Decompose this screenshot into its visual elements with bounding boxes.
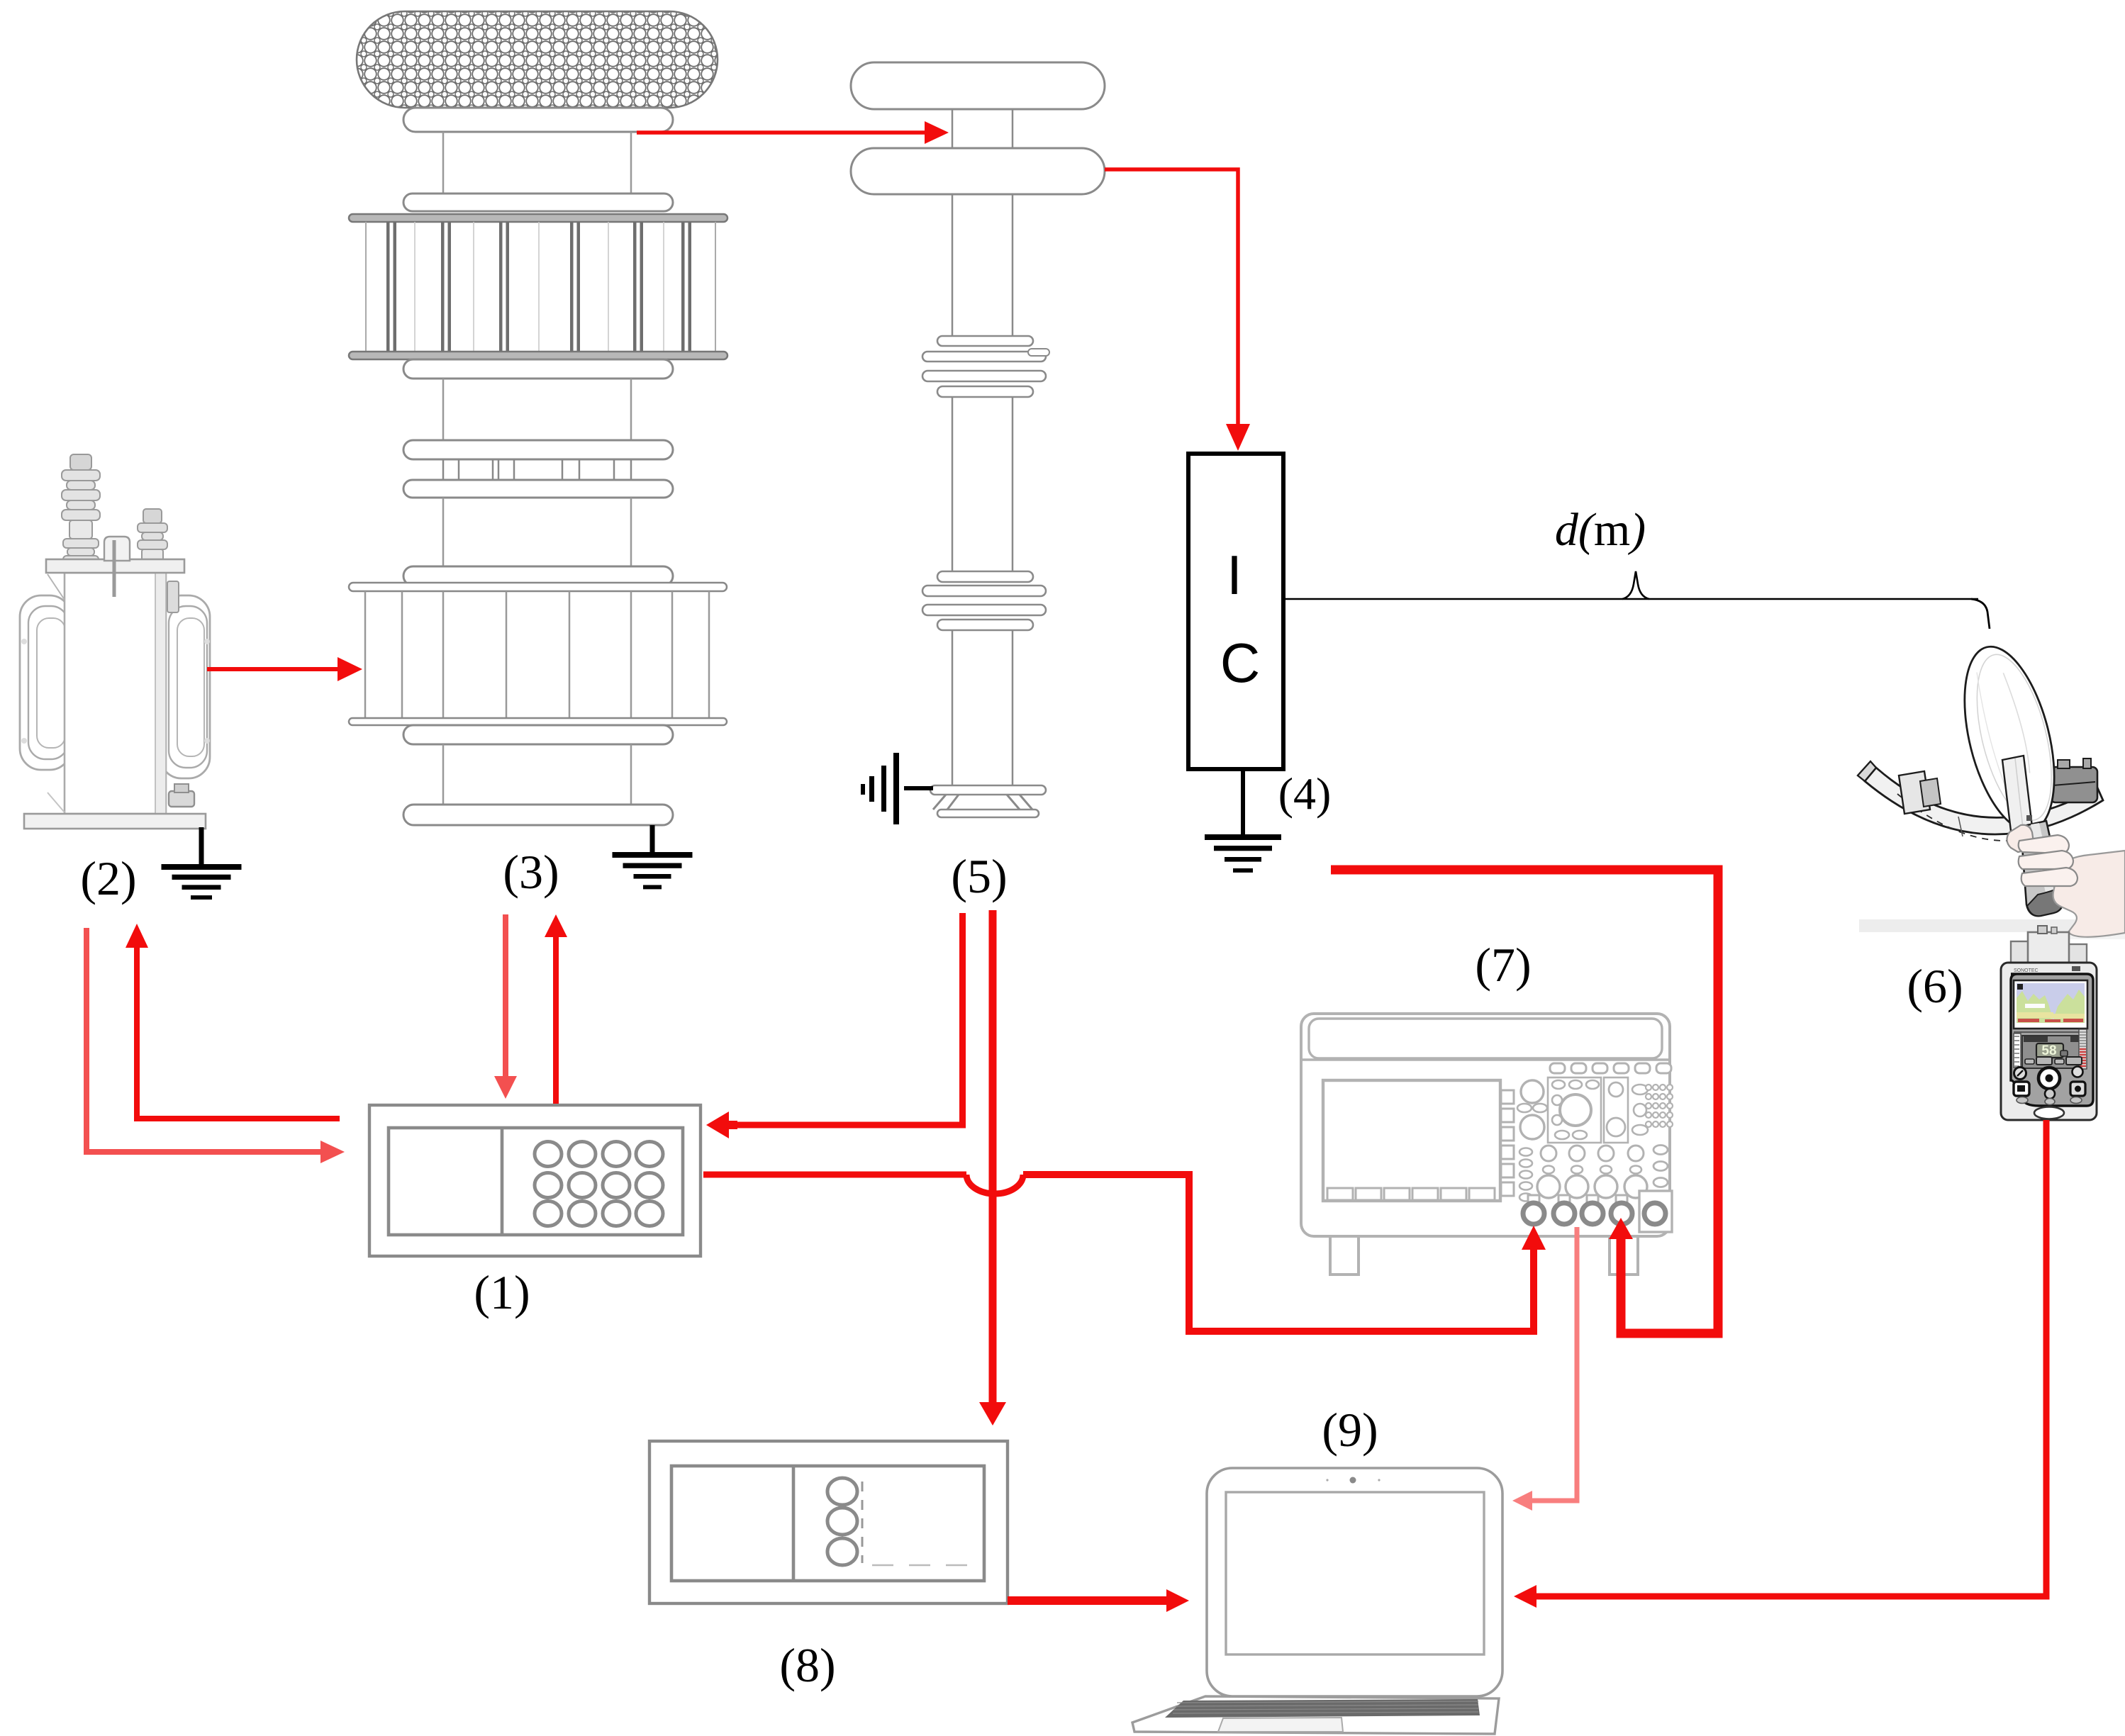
column segment: [442, 744, 445, 805]
wire (1) up into (3): [553, 937, 559, 1104]
toroid ring 6: [403, 566, 673, 586]
base plate: [24, 814, 206, 829]
toroid ring 4: [403, 440, 673, 459]
column: [952, 194, 954, 336]
right mid column: [1604, 1077, 1628, 1143]
boom dashed inner edge: [1897, 794, 2036, 841]
svg-text:58: 58: [2041, 1043, 2056, 1058]
floor shadow: [1859, 919, 2125, 932]
column segment: [442, 379, 445, 440]
fingers: [2019, 835, 2069, 853]
svg-text:C: C: [1220, 632, 1260, 694]
laptop (9): [1132, 1468, 1502, 1734]
oscilloscope (7): [1301, 1014, 1673, 1275]
corona mesh electrode: [357, 11, 718, 108]
handheld detector (6): [2001, 926, 2097, 1120]
wire loop from (4) area to scope CH4: [1331, 870, 1718, 1333]
small readouts: [2025, 1059, 2034, 1064]
ground of tower (3): [613, 825, 693, 889]
ground of divider (5), left-pointing: [861, 753, 933, 824]
toroid ring 5: [403, 480, 673, 498]
wire (6) down-left into laptop: [1536, 1120, 2046, 1596]
right lower ovals: [1653, 1146, 1668, 1155]
left knobs: [1521, 1080, 1544, 1103]
buttons: [2038, 1068, 2060, 1089]
central cluster: [1548, 1077, 1601, 1143]
lower capacitor stage: [349, 583, 727, 591]
tank lid: [46, 559, 184, 573]
HV bushing: [70, 454, 91, 470]
screen: [1323, 1080, 1500, 1201]
wire (5) down-left into (1): [729, 913, 963, 1125]
drain valve: [169, 791, 194, 807]
top button row: [1550, 1063, 1565, 1073]
scope body: [1301, 1014, 1670, 1236]
column: [952, 109, 954, 148]
curved boom: [1865, 768, 2103, 834]
laptop base: [1132, 1696, 1499, 1734]
column: [952, 630, 954, 785]
thin wire scope CH2 down to laptop: [1532, 1227, 1577, 1501]
ground of transformer (2): [162, 827, 242, 900]
toroid ring 8 (base): [403, 805, 673, 825]
svg-text:SONOTEC: SONOTEC: [2014, 968, 2038, 973]
control panel: [2011, 974, 2093, 1106]
column: [952, 397, 954, 571]
svg-text:(2): (2): [80, 851, 136, 905]
right bar meter: [2079, 1029, 2087, 1069]
column segment: [442, 498, 445, 566]
hand: [2053, 851, 2125, 937]
wire (3) down into (1): [503, 914, 508, 1076]
softkey column: [1501, 1090, 1514, 1104]
LV bushing: [143, 509, 162, 523]
top toroid: [851, 62, 1105, 109]
svg-text:I: I: [1227, 544, 1242, 606]
toroid ring 7: [403, 725, 673, 744]
sight camera block: [2051, 767, 2097, 802]
wire (1) left up into (2): [137, 948, 340, 1119]
right hook: [1971, 599, 1990, 629]
right radiator loop: [160, 595, 210, 778]
channel columns: [1541, 1146, 1556, 1161]
wire (3) to (5): [637, 130, 925, 135]
svg-text:(3): (3): [503, 845, 559, 899]
left radiator loop: [20, 595, 71, 770]
device body: [2001, 963, 2097, 1120]
lower-left oval column: [1519, 1148, 1532, 1156]
svg-text:(6): (6): [1907, 959, 1963, 1013]
second toroid: [851, 148, 1105, 194]
toroid ring 1: [403, 108, 673, 132]
tank body: [65, 573, 166, 814]
BNC connectors: [1528, 1195, 1539, 1204]
column segment: [442, 132, 445, 194]
impulse generator stack (3): [349, 11, 727, 825]
d(m) dimension line: [1283, 504, 1990, 629]
transformer (2): [20, 454, 210, 829]
thumb: [2007, 825, 2034, 852]
ground of IC (4): [1205, 769, 1281, 873]
left scale strip: [2014, 1034, 2021, 1068]
handle band: [1309, 1019, 1662, 1058]
svg-text:d(m): d(m): [1555, 504, 1646, 556]
svg-text:(7): (7): [1475, 938, 1531, 992]
top connector: [2011, 941, 2031, 964]
toroid ring 3: [403, 359, 673, 379]
wire (2) down-right into (1): [87, 928, 320, 1152]
wire (5) thick down into (8): [989, 910, 997, 1403]
handheld parabolic antenna: [1858, 637, 2125, 939]
screen: [2014, 980, 2087, 1029]
svg-text:(1): (1): [474, 1265, 530, 1319]
pistol grip: [2021, 821, 2063, 916]
upper capacitor stage: [349, 214, 727, 222]
feed bracket: [2002, 756, 2032, 831]
wire (5) to IC (4): [1105, 169, 1238, 424]
voltage divider (5): [851, 62, 1105, 817]
filter unit (8): [649, 1441, 1008, 1603]
left clamp block: [1899, 771, 1930, 814]
svg-text:(8): (8): [779, 1638, 835, 1692]
filler cap: [104, 537, 130, 561]
svg-text:(9): (9): [1322, 1403, 1378, 1457]
wire (1) to scope CH1: right, hop, down, right, up: [703, 1172, 966, 1178]
brace cusp: [1622, 571, 1649, 599]
control unit (1): [369, 1105, 701, 1256]
spacer struts: [442, 459, 445, 480]
readout sub-panel: [2022, 1036, 2083, 1068]
svg-text:(5): (5): [951, 849, 1007, 903]
dish ellipse: [1948, 637, 2070, 839]
IC box (4): [1188, 454, 1283, 769]
lower disc stack: [937, 571, 1033, 582]
scope feet: [1330, 1233, 1359, 1275]
bottom oval port: [2034, 1107, 2064, 1119]
wire (2) to (3): [207, 667, 338, 671]
base stand: [930, 785, 1046, 795]
toroid ring 2: [403, 194, 673, 211]
keypad grid: [1646, 1085, 1651, 1090]
upper disc stack: [937, 336, 1033, 346]
wire (8) right into laptop: [1008, 1596, 1166, 1605]
svg-text:(4): (4): [1278, 768, 1332, 819]
